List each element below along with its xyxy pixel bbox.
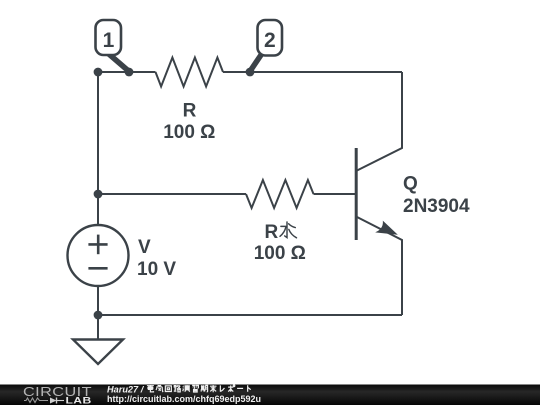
wire bottom horizontal xyxy=(98,314,402,316)
svg-text:R: R xyxy=(265,222,279,243)
char 期 xyxy=(201,385,208,392)
svg-text:LAB: LAB xyxy=(65,396,91,405)
svg-text:Haru27 /: Haru27 / xyxy=(107,384,145,394)
char 気 xyxy=(156,385,163,391)
char ポ xyxy=(228,385,235,392)
char 末 xyxy=(210,385,217,392)
wire left vertical (node1 down to V+ ) xyxy=(97,72,99,225)
char 電 xyxy=(147,385,154,392)
junction dot top-left corner xyxy=(94,68,103,77)
svg-text:Q: Q xyxy=(403,174,418,195)
wire top-right horizontal (R to collector corner) xyxy=(223,71,402,73)
ground symbol triangle xyxy=(73,340,123,365)
wire collector vertical + diagonal into transistor xyxy=(356,72,402,171)
char ト xyxy=(248,385,251,392)
transistor Q1 emitter arrow xyxy=(375,221,398,235)
char ー xyxy=(237,387,243,389)
svg-text:R: R xyxy=(183,101,197,122)
svg-text:V: V xyxy=(138,237,151,258)
node flag 1 tail xyxy=(107,52,129,71)
junction dot node 1 xyxy=(125,68,134,77)
char 路 xyxy=(174,385,181,392)
wire middle horizontal (node to R水) xyxy=(98,193,246,195)
char 回 xyxy=(165,386,171,392)
transistor Q1 emitter diagonal xyxy=(356,217,402,316)
svg-text:10 V: 10 V xyxy=(137,259,176,280)
junction dot bottom node xyxy=(94,311,103,320)
wire R水 to transistor base xyxy=(314,193,356,195)
svg-text:2N3904: 2N3904 xyxy=(403,196,470,217)
char レ xyxy=(220,385,224,391)
char 演 xyxy=(183,385,190,392)
wire top-left horizontal (node 1 to R) xyxy=(98,71,156,73)
label R水 kanji 水 glyph xyxy=(280,222,297,238)
logo resistor zigzag xyxy=(24,398,48,403)
voltage source minus sign xyxy=(88,267,107,270)
junction dot middle node xyxy=(94,190,103,199)
svg-text:100 Ω: 100 Ω xyxy=(254,243,306,264)
wire V- down to ground xyxy=(97,286,99,340)
node flag 2 tail xyxy=(251,52,264,71)
svg-text:http://circuitlab.com/chfq69ed: http://circuitlab.com/chfq69edp592u xyxy=(107,394,261,404)
resistor R水 zigzag body xyxy=(246,180,314,208)
svg-text:1: 1 xyxy=(103,29,115,52)
junction dot node 2 xyxy=(246,68,255,77)
node flag 1 box xyxy=(96,20,122,55)
logo diode xyxy=(50,398,64,404)
node flag 2 box xyxy=(258,20,283,56)
resistor R zigzag body xyxy=(156,58,224,87)
transistor Q1 base bar xyxy=(355,148,358,240)
svg-text:2: 2 xyxy=(264,29,276,52)
voltage source V circle xyxy=(68,225,129,286)
char 習 xyxy=(192,385,198,392)
svg-text:100 Ω: 100 Ω xyxy=(163,122,215,143)
footer japanese title glyphs xyxy=(147,385,251,392)
voltage source plus sign xyxy=(88,235,107,255)
